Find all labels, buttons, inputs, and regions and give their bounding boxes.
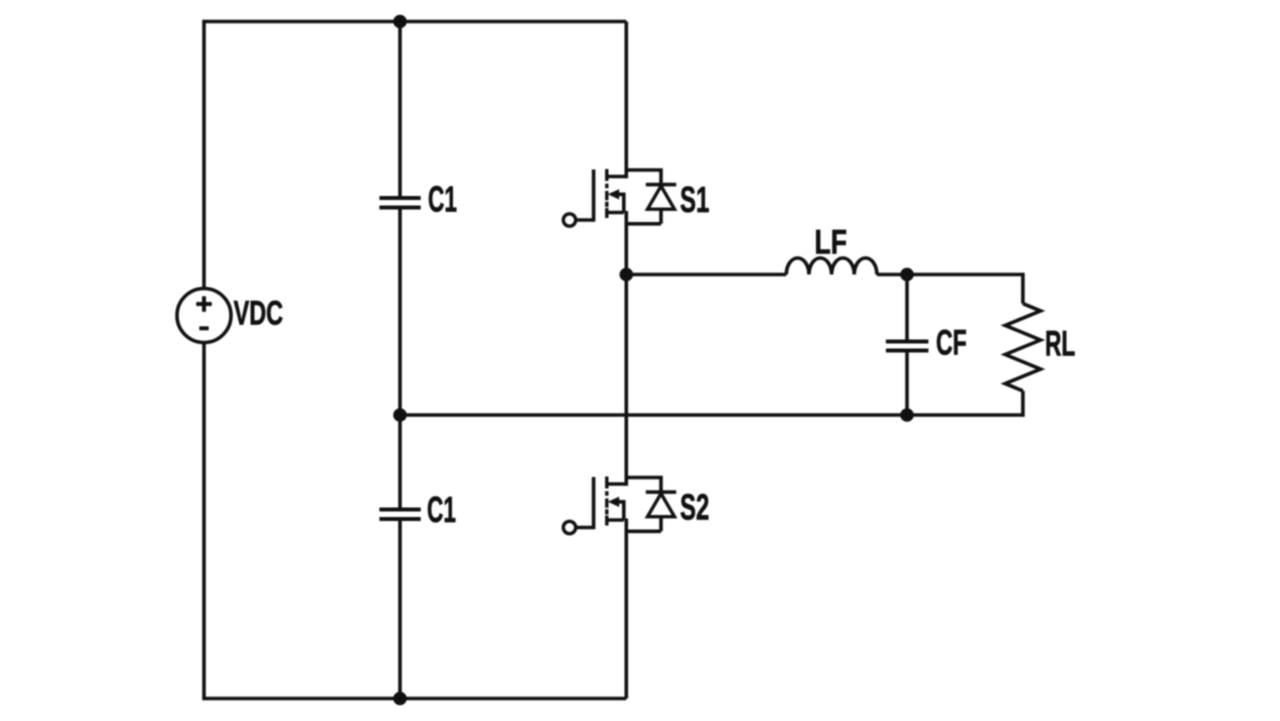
node bottom of C1 leg bbox=[393, 692, 407, 706]
transistor S1 with body diode bbox=[563, 169, 676, 226]
wire mid rail bbox=[400, 413, 1023, 417]
node CF bottom bbox=[900, 408, 914, 422]
wire RL lower lead bbox=[1021, 391, 1025, 417]
capacitor C1 top bbox=[379, 198, 420, 208]
capacitor CF bbox=[886, 342, 929, 351]
node phase midpoint bbox=[620, 268, 634, 282]
resistor RL bbox=[1005, 304, 1040, 391]
wire left rail lower bbox=[202, 342, 206, 700]
wire left rail upper bbox=[202, 20, 206, 289]
node CF top bbox=[900, 268, 914, 282]
wire S1 drain bbox=[624, 22, 628, 179]
wire capacitor leg lower bbox=[398, 519, 402, 699]
wire phase to inductor bbox=[626, 273, 786, 277]
node mid rail at C1 leg bbox=[393, 408, 407, 422]
voltage source VDC bbox=[177, 289, 231, 343]
node top of C1 leg bbox=[393, 15, 407, 29]
wire capacitor leg upper bbox=[398, 22, 402, 199]
transistor S2 with body diode bbox=[563, 477, 676, 534]
wire RL upper lead bbox=[1021, 273, 1025, 304]
svg-text:CF: CF bbox=[936, 324, 967, 363]
wire CF lower lead bbox=[905, 351, 909, 416]
svg-text:RL: RL bbox=[1045, 325, 1075, 364]
wire S2 source bbox=[624, 519, 628, 699]
wire top rail bbox=[204, 20, 626, 24]
wire bottom rail bbox=[204, 697, 626, 701]
capacitor C1 bottom bbox=[379, 510, 420, 520]
svg-text:C1: C1 bbox=[427, 491, 456, 531]
svg-text:S1: S1 bbox=[680, 179, 709, 220]
svg-text:VDC: VDC bbox=[234, 295, 283, 332]
wire S1 source to S2 drain bbox=[624, 211, 628, 486]
svg-text:LF: LF bbox=[815, 222, 847, 261]
svg-text:S2: S2 bbox=[680, 486, 709, 527]
inductor LF bbox=[786, 258, 877, 275]
wire capacitor leg middle bbox=[398, 208, 402, 510]
wire inductor to RL corner bbox=[877, 273, 1023, 277]
svg-text:C1: C1 bbox=[428, 180, 457, 220]
wire CF upper lead bbox=[905, 275, 909, 342]
